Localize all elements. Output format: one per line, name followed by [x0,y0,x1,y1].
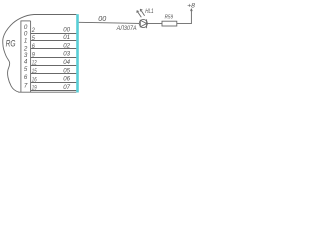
svg-text:5: 5 [32,35,36,42]
svg-text:RG: RG [6,39,16,50]
svg-text:7: 7 [24,83,28,90]
resistor R59 body [162,21,177,26]
svg-text:1: 1 [24,38,27,45]
divider vertical between RG field and outputs [20,21,22,92]
wire bus tap to LED [79,22,140,23]
svg-text:05: 05 [63,67,70,74]
bus highlighted edge (cyan) [76,14,79,92]
svg-text:06: 06 [63,76,70,83]
svg-text:5: 5 [24,66,28,73]
wire LED to resistor [147,23,162,25]
svg-text:03: 03 [63,51,70,58]
svg-text:4: 4 [24,59,28,66]
wire Q6 pin 16 [31,82,77,84]
inner top edge [21,20,31,22]
svg-text:19: 19 [32,85,37,92]
box bottom edge [19,91,77,93]
svg-text:00: 00 [98,16,106,23]
wire Q5 pin 15 [31,73,77,75]
net labels Q0-Q7 (drawn as 00-07) [63,26,70,91]
svg-text:15: 15 [32,68,37,75]
+B power arrowhead [191,9,193,12]
wire Q0 pin 2 [31,33,77,35]
svg-text:04: 04 [63,59,70,66]
svg-text:12: 12 [32,60,37,67]
wire Q3 pin 9 [31,57,77,59]
svg-text:6: 6 [24,74,28,81]
svg-text:R59: R59 [165,15,173,21]
wire Q1 pin 5 [31,40,77,42]
wire Q2 pin 6 [31,48,77,50]
svg-text:2: 2 [31,27,35,34]
svg-text:01: 01 [63,34,70,41]
svg-text:9: 9 [32,51,36,58]
wire resistor to +B riser [177,9,192,24]
svg-text:+8: +8 [187,2,195,9]
svg-text:00: 00 [63,26,70,33]
svg-text:0: 0 [24,31,28,38]
svg-text:6: 6 [32,43,36,50]
wire Q7 pin 19 [31,90,77,92]
wire Q4 pin 12 [31,65,77,67]
svg-text:АЛ307А: АЛ307А [116,25,137,32]
pin numbers [31,27,37,92]
output bit digits column [23,24,28,90]
LED emission arrows [137,11,141,17]
svg-text:07: 07 [63,84,70,91]
svg-text:16: 16 [32,76,37,83]
svg-text:HL1: HL1 [145,8,153,15]
tear line torn-IC left boundary merging into top edge wire [3,15,77,93]
svg-text:02: 02 [63,42,70,49]
box right edge [30,21,32,92]
LED HL1 [137,9,148,28]
